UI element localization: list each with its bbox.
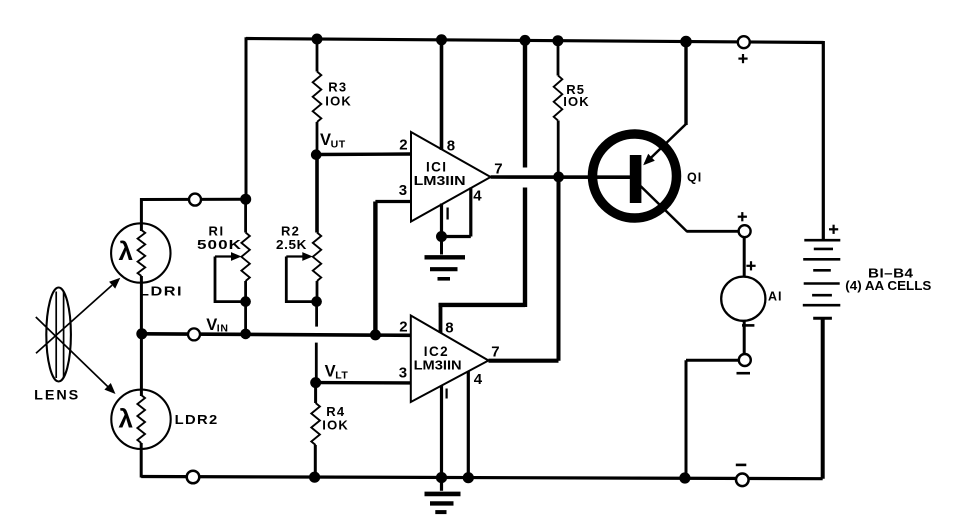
svg-text:IOK: IOK [322, 418, 349, 433]
node VUT [311, 149, 322, 160]
meter A1 [721, 277, 765, 321]
pin 8 label IC1 [447, 138, 455, 155]
label LENS [34, 388, 80, 403]
terminal Q1 collector [739, 225, 751, 237]
pin 2 label IC2 [399, 319, 407, 336]
node VIN R1 junction [240, 329, 251, 340]
pin 8 wire IC1 [440, 40, 444, 150]
pin 3 label IC2 [399, 365, 407, 382]
wire R3 top lead [316, 39, 319, 72]
label minus below meter [742, 324, 754, 327]
node R2 wiper junction [311, 296, 322, 307]
LDR2 circle [111, 390, 170, 449]
pin 7 label IC2 [491, 344, 499, 361]
wire Q1 emitter drop [684, 42, 687, 125]
lens ellipse [46, 288, 71, 382]
svg-text:ICI: ICI [426, 160, 447, 175]
light ray arrow to LDR2 [36, 317, 116, 394]
svg-text:(4) AA CELLS: (4) AA CELLS [845, 279, 931, 293]
svg-text:UT: UT [331, 138, 346, 150]
node comparator output junction [553, 172, 564, 183]
op-amp comparator IC2 [411, 316, 489, 403]
node R3 top on +V rail [312, 34, 323, 45]
resistor R5 [554, 76, 563, 121]
Q1 emitter arrow [643, 154, 655, 165]
label IC2 [424, 344, 449, 359]
pin 8 label IC2 [445, 320, 453, 337]
svg-text:500K: 500K [197, 237, 242, 252]
LDR1 circle [111, 223, 170, 282]
terminal LDR1 feed [189, 194, 201, 206]
svg-text:LENS: LENS [34, 388, 80, 403]
wire R4 bottom lead [314, 445, 317, 477]
label minus at right ground terminal [736, 464, 747, 467]
pin 1 wire IC1 [440, 204, 443, 237]
svg-text:7: 7 [491, 344, 499, 361]
node R1 wiper junction [240, 296, 251, 307]
label 2.5K [276, 237, 307, 252]
node IC2 pin1 on ground rail [436, 472, 447, 483]
wire LDR2 top lead [140, 334, 143, 396]
svg-text:V: V [320, 131, 331, 149]
svg-text:LM3IIN: LM3IIN [414, 359, 462, 373]
node VLT [310, 377, 321, 388]
wire battery negative drop [821, 318, 825, 479]
wire R2 to VLT crossover lower [315, 343, 318, 383]
wire LDR1 top lead [140, 198, 143, 231]
wire terminal to meter [743, 237, 746, 277]
node IC1 pin8 on +V rail [436, 34, 447, 45]
label LDR1 [139, 284, 183, 299]
wire IC1 pin3 drop to VIN [373, 202, 377, 335]
ground main [425, 478, 461, 512]
label A1 [768, 290, 783, 304]
pin 1 label IC1 [446, 208, 448, 220]
pin 4 label IC1 [473, 188, 482, 205]
terminal meter low side [739, 354, 751, 366]
pin 2 label IC1 [399, 137, 407, 154]
lens inner chord right [63, 292, 65, 379]
svg-text:R3: R3 [328, 80, 347, 95]
wire R5 top lead [557, 41, 560, 76]
label VIN [206, 316, 228, 334]
battery B1-B4 plates [803, 240, 841, 318]
R1 wiper arrow [215, 252, 242, 261]
Q1 collector diagonal [641, 186, 688, 232]
terminal ground rail left [187, 471, 200, 484]
svg-text:2.5K: 2.5K [276, 237, 307, 252]
svg-text:AI: AI [768, 290, 783, 304]
label IC2 part LM311N [414, 359, 462, 373]
wire IC2 output stub [489, 359, 559, 363]
pin 7 label IC1 [494, 161, 502, 178]
svg-text:λ: λ [119, 404, 134, 434]
transistor Q1 body [593, 134, 677, 218]
pin 1 wire IC2 [440, 386, 443, 478]
terminal ground rail right [736, 474, 749, 487]
wire R1 bottom lead [244, 281, 247, 302]
svg-text:7: 7 [494, 161, 502, 178]
wire R3 bottom lead [316, 122, 319, 155]
label R3 value 10K [325, 94, 352, 109]
wire IC2 output riser to junction [557, 177, 561, 361]
Q1 emitter diagonal [645, 124, 687, 164]
svg-text:λ: λ [119, 236, 134, 266]
node VIN IC1-pin3 junction [370, 329, 381, 340]
svg-text:3: 3 [399, 365, 407, 382]
wire R1 to VIN [244, 302, 247, 334]
svg-text:LDR2: LDR2 [175, 412, 219, 427]
svg-text:LT: LT [335, 369, 348, 381]
wire LDR1 bottom lead [140, 276, 143, 334]
pin 4 label IC2 [474, 371, 483, 388]
label LDR2 [175, 412, 219, 427]
svg-text:4: 4 [473, 188, 482, 205]
svg-text:LDRI: LDRI [139, 284, 183, 299]
node VIN LDR junction [136, 328, 147, 339]
label R5 value 10K [563, 94, 590, 109]
wire R1 top lead [244, 199, 247, 233]
svg-text:V: V [325, 363, 336, 381]
wire IC1 output to Q1 base [491, 175, 631, 179]
label 500K [197, 237, 242, 252]
wire LDR1 top feed [140, 198, 246, 201]
wire left supply drop [245, 37, 248, 201]
label Q1 [687, 171, 702, 185]
resistor R1 (500K pot) [241, 233, 249, 282]
label plus at battery [829, 225, 838, 234]
label minus below terminal [737, 372, 751, 375]
resistor R4 [311, 403, 320, 445]
svg-text:QI: QI [687, 171, 702, 185]
wire ground rail [141, 477, 823, 479]
label B1-B4 [868, 267, 914, 281]
terminal VIN [188, 328, 200, 340]
op-amp comparator IC1 [411, 132, 491, 222]
label plus at meter [746, 261, 755, 270]
LDR1 lambda symbol [119, 236, 134, 266]
resistor R2 (2.5K pot) [313, 233, 321, 282]
wire VUT to R2 [315, 155, 319, 233]
Q1 base bar [630, 155, 642, 203]
LDR2 lambda symbol [119, 404, 134, 434]
node +V drop on rail [520, 35, 531, 46]
wire meter to lower terminal [743, 321, 746, 354]
node LDR1 feed / R1 top junction [240, 194, 251, 205]
label R4 value 10K [322, 418, 349, 433]
label VUT [320, 131, 346, 150]
svg-text:8: 8 [447, 138, 455, 155]
label plus at +V terminal [738, 54, 747, 63]
ground IC1 [425, 237, 466, 279]
svg-text:2: 2 [399, 137, 407, 154]
node R5 top on +V rail [552, 35, 563, 46]
label VLT [325, 363, 349, 382]
node IC1 ground junction [436, 231, 447, 242]
wire VIN bus [142, 334, 411, 336]
label R2 [281, 224, 300, 239]
label R4 [326, 404, 345, 419]
svg-text:4: 4 [474, 371, 483, 388]
pin 4 wire IC1 [469, 188, 472, 237]
svg-text:V: V [206, 316, 217, 334]
svg-text:IOK: IOK [325, 94, 352, 109]
pin 3 label IC1 [399, 182, 407, 199]
wire R4 top lead [314, 383, 317, 403]
wire R2 to VIN crossover upper [315, 302, 318, 327]
svg-text:2: 2 [399, 319, 407, 336]
lens inner chord left [55, 292, 57, 379]
label plus at Q1 collector terminal [738, 212, 747, 221]
label IC1 [426, 160, 447, 175]
terminal +V battery side [738, 36, 750, 48]
photoresistor LDR1 element [138, 230, 146, 276]
wire +V drop upper segment [523, 40, 527, 168]
node R4 on ground rail [309, 472, 320, 483]
wire meter return horizontal [686, 359, 739, 362]
pin 1 label IC2 [446, 389, 448, 399]
label R1 [209, 224, 225, 239]
node IC2 pin4 on ground rail [463, 472, 474, 483]
wire top +V rail [246, 39, 824, 43]
wire VUT to IC1 pin2 [316, 152, 411, 156]
pin 4 wire IC2 [467, 372, 470, 478]
svg-text:LM3IIN: LM3IIN [414, 174, 466, 188]
wire IC1 pin3 stub [375, 200, 411, 203]
resistor R3 [313, 72, 322, 123]
R2 wiper return bracket [286, 257, 314, 302]
node Q1 emitter on +V rail [680, 36, 692, 48]
R2 wiper arrow [286, 252, 313, 261]
wire IC1 pin4 to pin1 [440, 235, 471, 238]
label R5 [566, 82, 585, 97]
light ray arrow to LDR1 [36, 278, 120, 354]
wire LDR2 bottom lead [140, 443, 143, 478]
wire VLT to IC2 pin3 [316, 381, 411, 385]
wire IC2 pin8 riser [439, 303, 443, 333]
label IC1 part LM311N [414, 174, 466, 188]
wire meter return drop [685, 360, 688, 478]
label (4) AA CELLS [845, 279, 931, 293]
node meter return on ground rail [679, 472, 690, 483]
label R3 [328, 80, 347, 95]
svg-text:IOK: IOK [563, 94, 590, 109]
wire battery positive drop [822, 41, 825, 239]
wire R5 bottom lead [557, 121, 560, 177]
wire Q1 base [559, 175, 631, 178]
svg-text:8: 8 [445, 320, 453, 337]
R1 wiper return bracket [215, 257, 243, 302]
photoresistor LDR2 element [137, 395, 145, 443]
wire Q1 collector to terminal [687, 230, 739, 233]
svg-text:IC2: IC2 [424, 344, 449, 359]
wire IC2 pin8 elbow [439, 303, 525, 307]
wire +V drop lower segment [523, 188, 527, 308]
wire R2 bottom lead [316, 281, 319, 302]
svg-text:IN: IN [217, 322, 229, 334]
svg-text:3: 3 [399, 182, 407, 199]
